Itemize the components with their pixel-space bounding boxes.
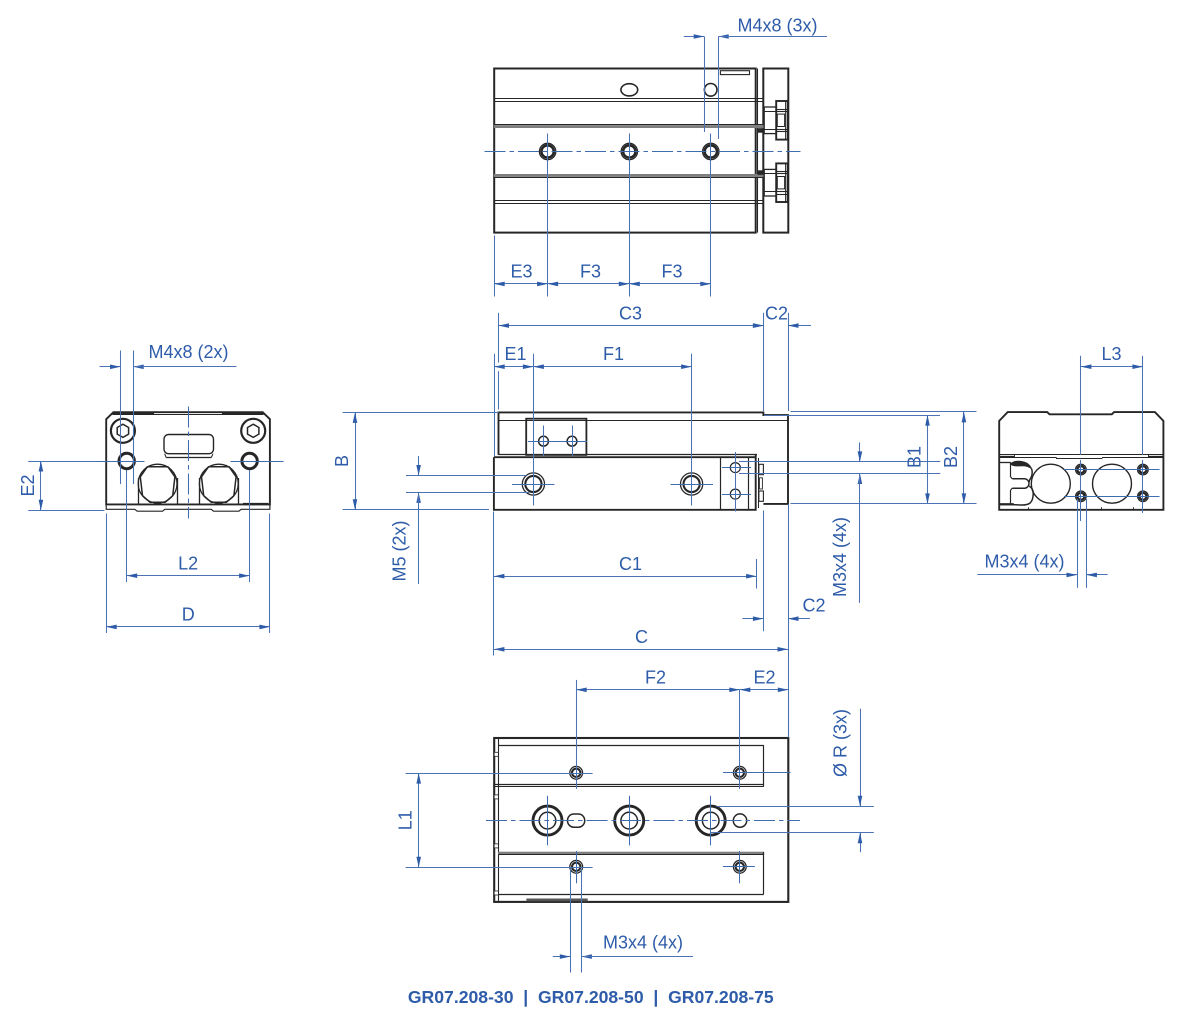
bottom view left inner edge bbox=[494, 738, 498, 902]
svg-text:E2: E2 bbox=[753, 667, 775, 687]
dimension L3 bbox=[1081, 344, 1143, 521]
bottom view bore 3 bbox=[696, 806, 725, 835]
bottom view sensor bar bbox=[527, 899, 588, 901]
dimension C3 bbox=[499, 303, 764, 411]
dimension M4x8 (2x) bbox=[100, 342, 237, 484]
svg-text:F3: F3 bbox=[661, 262, 682, 282]
top view horizontal centerline bbox=[485, 151, 801, 153]
svg-text:D: D bbox=[182, 605, 195, 625]
top view body outline bbox=[494, 69, 756, 233]
svg-text:F1: F1 bbox=[603, 344, 624, 364]
svg-text:Ø R (3x): Ø R (3x) bbox=[831, 709, 851, 777]
svg-text:F2: F2 bbox=[645, 667, 666, 687]
dimension M3x4 (4x) front bbox=[739, 442, 940, 603]
dimension F2 bbox=[576, 667, 740, 692]
svg-text:M4x8 (3x): M4x8 (3x) bbox=[737, 16, 817, 36]
right view M3 hole at 1143,470 bbox=[1138, 464, 1149, 475]
svg-text:L2: L2 bbox=[178, 553, 198, 573]
left view body outline bbox=[106, 412, 270, 504]
top view oval hole bbox=[621, 84, 638, 96]
dimension E3 F3 F3 bbox=[494, 236, 711, 297]
top view intermediate strip bbox=[756, 69, 764, 233]
top view gray rail bands bbox=[494, 125, 756, 178]
bottom view horizontal centerline bbox=[486, 820, 800, 822]
top view hole vertical centerlines bbox=[548, 134, 711, 297]
right view hole centerlines bbox=[1064, 470, 1160, 497]
left view cylinder bore left bbox=[138, 464, 177, 504]
dimension C bbox=[494, 627, 788, 652]
right view bottom edge ticks bbox=[1029, 507, 1134, 509]
dimension M5 (2x) bbox=[390, 456, 530, 584]
top view groove lines upper+lower bbox=[494, 99, 756, 204]
front view M5 port centerlines bbox=[512, 484, 713, 486]
svg-text:M3x4 (4x): M3x4 (4x) bbox=[603, 933, 683, 953]
bottom view upper plate bbox=[494, 745, 764, 786]
right view M3 hole at 1081,496 bbox=[1076, 491, 1087, 502]
svg-text:B: B bbox=[332, 455, 352, 467]
right view bore right bbox=[1093, 464, 1132, 503]
front view M5 port right bbox=[681, 473, 703, 495]
bottom view bore 2 bbox=[615, 806, 644, 835]
left view hex socket screw left bbox=[111, 419, 135, 443]
svg-text:E1: E1 bbox=[504, 344, 526, 364]
top view stopper screw upper bbox=[764, 101, 787, 140]
svg-text:L3: L3 bbox=[1101, 344, 1121, 364]
svg-text:B2: B2 bbox=[941, 446, 961, 468]
front view M5 port left bbox=[522, 473, 544, 495]
right view M3 hole at 1143,496 bbox=[1138, 491, 1149, 502]
dimension F1 bbox=[533, 344, 691, 506]
bottom view small hole right bbox=[733, 814, 746, 827]
left view hex socket screw right bbox=[241, 419, 265, 443]
svg-text:C1: C1 bbox=[619, 554, 642, 574]
dimension M3x4 (4x) bottom view bbox=[553, 869, 693, 973]
svg-text:GR07.208-30 | GR07.208-50 |: GR07.208-30 | GR07.208-50 | GR07.208-75 bbox=[408, 987, 774, 1007]
svg-text:C: C bbox=[635, 627, 648, 647]
bottom view lower plate bbox=[498, 852, 763, 895]
dimension D bbox=[106, 514, 270, 634]
bottom view M3 hole 4 bbox=[733, 860, 746, 873]
dimension B bbox=[332, 412, 499, 509]
dimension C2 bottom bbox=[742, 504, 825, 738]
svg-text:E3: E3 bbox=[510, 262, 532, 282]
bottom view body outline bbox=[494, 738, 788, 902]
dimension diameter R (3x) bbox=[711, 709, 874, 853]
right view rail claw profile bbox=[999, 461, 1033, 505]
front view lower body bbox=[494, 455, 756, 510]
left view horizontal centerline bbox=[96, 461, 284, 463]
left view vertical centerline bbox=[188, 407, 190, 519]
dimension C1 bbox=[494, 512, 757, 656]
svg-text:E2: E2 bbox=[18, 474, 38, 496]
top view M4 hole 3 bbox=[703, 143, 719, 159]
front view piston sub-block bbox=[721, 457, 764, 510]
svg-text:C3: C3 bbox=[619, 303, 642, 323]
dimension E2 left view bbox=[18, 461, 105, 511]
svg-text:M4x8 (2x): M4x8 (2x) bbox=[148, 342, 228, 362]
bottom view hole centerlines bbox=[548, 680, 740, 883]
bottom view M3 hole 1 bbox=[570, 766, 583, 779]
footer part numbers bbox=[408, 987, 774, 1007]
left view M4 hole right bbox=[242, 453, 257, 468]
front view rod end block bbox=[526, 419, 587, 456]
right view bore left bbox=[1031, 464, 1070, 503]
left view M4 hole left bbox=[119, 453, 134, 468]
front view sub-block centerline bbox=[722, 452, 751, 512]
front view upper slide body bbox=[499, 412, 789, 504]
svg-text:L1: L1 bbox=[396, 810, 416, 830]
right view split lines bbox=[999, 455, 1163, 459]
dimension C2 top bbox=[753, 303, 811, 411]
bottom view oval slot bbox=[568, 814, 585, 827]
dimension M3x4 (4x) right view bbox=[977, 499, 1107, 588]
left view cylinder bore right bbox=[199, 464, 238, 504]
top view end cap bbox=[763, 69, 788, 233]
dimension B1 bbox=[764, 415, 940, 504]
top view sensor slot rectangle bbox=[720, 71, 749, 75]
right view body outline bbox=[999, 412, 1163, 510]
svg-text:C2: C2 bbox=[802, 596, 825, 616]
dimension L1 bbox=[396, 773, 593, 867]
top view stopper screw lower bbox=[764, 163, 787, 202]
bottom view M3 hole 3 bbox=[570, 860, 583, 873]
top view M4 hole 2 bbox=[621, 143, 637, 159]
dimension E2 bottom view bbox=[740, 667, 789, 737]
dimension E1 bbox=[494, 344, 533, 456]
dimension M4x8 (3x) top view bbox=[684, 16, 827, 140]
svg-text:C2: C2 bbox=[765, 303, 788, 323]
dimension B2 bbox=[791, 412, 977, 504]
bottom view bore 1 bbox=[533, 806, 562, 835]
svg-text:F3: F3 bbox=[580, 262, 601, 282]
bottom view M3 hole 2 bbox=[733, 766, 746, 779]
dimension L2 bbox=[127, 470, 250, 582]
bottom view right hole centerlines bbox=[723, 773, 791, 867]
svg-text:M5 (2x): M5 (2x) bbox=[390, 520, 410, 581]
left view bottom profile bbox=[106, 504, 270, 511]
svg-text:B1: B1 bbox=[905, 446, 925, 468]
right view M3 hole at 1081,470 bbox=[1076, 464, 1087, 475]
top view round hole bbox=[704, 84, 717, 97]
svg-text:M3x4 (4x): M3x4 (4x) bbox=[984, 552, 1064, 572]
svg-text:M3x4 (4x): M3x4 (4x) bbox=[830, 517, 850, 597]
left view top edge chamfer band bbox=[113, 412, 264, 415]
top view M4 hole 1 bbox=[539, 143, 555, 159]
left view center slot bbox=[164, 435, 214, 458]
